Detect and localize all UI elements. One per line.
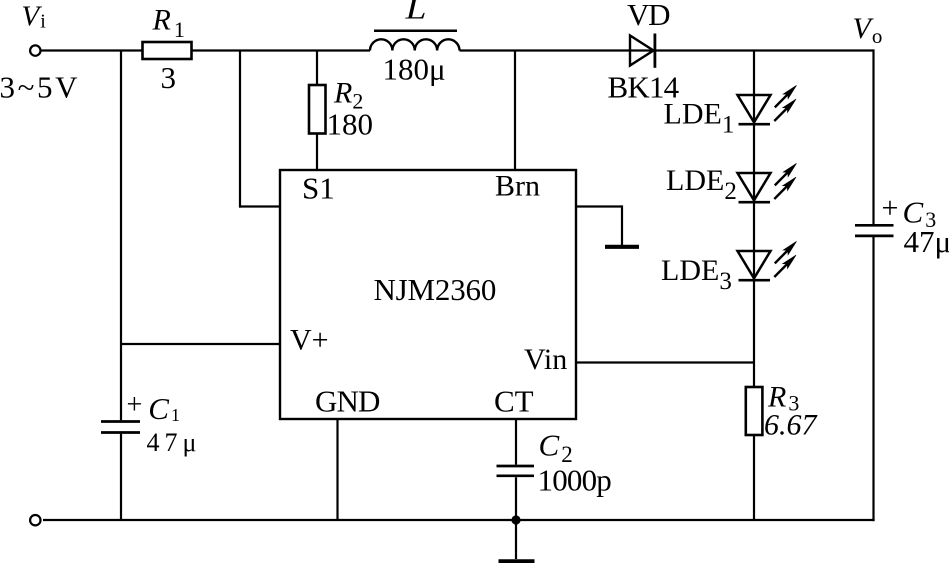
svg-text:L: L bbox=[404, 0, 426, 26]
svg-text:NJM2360: NJM2360 bbox=[374, 272, 497, 307]
svg-text:S1: S1 bbox=[302, 171, 335, 206]
svg-text:Brn: Brn bbox=[495, 170, 540, 203]
svg-text:+: + bbox=[127, 390, 143, 421]
svg-text:1000p: 1000p bbox=[538, 463, 612, 498]
svg-text:47μ: 47μ bbox=[147, 428, 202, 457]
svg-text:3~5V: 3~5V bbox=[0, 70, 80, 105]
svg-text:180μ: 180μ bbox=[383, 52, 446, 87]
svg-text:GND: GND bbox=[315, 384, 380, 419]
svg-text:3: 3 bbox=[161, 60, 177, 95]
svg-text:180: 180 bbox=[327, 107, 374, 142]
svg-text:6.67: 6.67 bbox=[764, 409, 819, 442]
svg-text:V+: V+ bbox=[290, 324, 329, 357]
svg-text:+: + bbox=[882, 192, 899, 225]
svg-text:VD: VD bbox=[627, 0, 670, 32]
svg-text:CT: CT bbox=[494, 384, 534, 419]
svg-text:47μ: 47μ bbox=[904, 224, 949, 259]
svg-text:Vin: Vin bbox=[524, 343, 567, 376]
